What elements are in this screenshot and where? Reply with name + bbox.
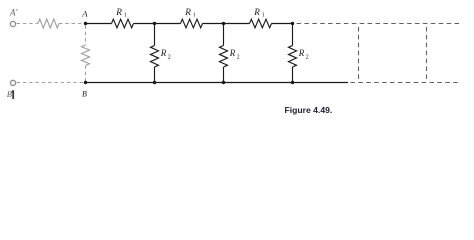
svg-text:R: R (298, 48, 305, 58)
svg-text:2: 2 (306, 55, 309, 61)
resistor R1 (2) (181, 19, 203, 28)
resistor R2 (1) zigzag (151, 46, 159, 68)
svg-text:2: 2 (168, 55, 171, 61)
svg-text:A: A (81, 8, 88, 18)
resistor R2 (3) top lead (292, 24, 294, 46)
resistor R1 (3) (250, 19, 272, 28)
wire dashed A' to source resistor (17, 23, 38, 25)
svg-text:1: 1 (124, 13, 127, 19)
svg-text:2: 2 (237, 55, 240, 61)
wire top rail seg 2a (155, 23, 181, 25)
wire dashed vertical continuation 2 (426, 27, 428, 80)
terminal A' (10, 21, 15, 26)
svg-text:R: R (184, 7, 191, 17)
resistor shunt faded: top dashed lead (85, 26, 87, 46)
node bottom junction 1 (153, 81, 156, 84)
svg-text:R: R (253, 7, 260, 17)
wire bottom rail solid (86, 82, 349, 84)
resistor R2 (2) bottom lead (223, 67, 225, 83)
resistor R2 (1) bottom lead (154, 67, 156, 83)
wire dashed source resistor to node A (59, 23, 86, 25)
node bottom junction 2 (222, 81, 225, 84)
resistor R2 (3) bottom lead (292, 67, 294, 83)
svg-text:B: B (82, 90, 87, 99)
resistor R2 (3) zigzag (289, 46, 297, 68)
resistor R2 (2) zigzag (220, 46, 228, 68)
svg-text:1: 1 (193, 13, 196, 19)
node B (84, 81, 87, 84)
wire top rail seg 3b (272, 23, 293, 25)
resistor R1 (1) (112, 19, 134, 28)
node bottom junction 3 (291, 81, 294, 84)
svg-text:R: R (115, 7, 122, 17)
resistor R2 (1) top lead (154, 24, 156, 46)
wire dashed B' to node B (17, 82, 84, 84)
resistor source (faded) (38, 19, 59, 28)
wire top rail seg 3a (224, 23, 250, 25)
wire dashed vertical continuation 1 (358, 27, 360, 80)
resistor R2 (2) top lead (223, 24, 225, 46)
node top junction 3 (291, 22, 294, 25)
wire top rail seg 1a (86, 23, 112, 25)
node top junction 2 (222, 22, 225, 25)
wire dashed bottom continuation (351, 82, 461, 84)
node A (84, 22, 87, 25)
svg-text:B: B (7, 89, 12, 99)
svg-text:R: R (160, 48, 167, 58)
wire dashed top continuation (297, 23, 461, 25)
svg-text:A′: A′ (9, 7, 18, 17)
terminal B' (10, 80, 15, 85)
svg-text:1: 1 (262, 13, 265, 19)
resistor shunt faded: zigzag (82, 45, 90, 66)
wire top rail seg 2b (203, 23, 224, 25)
svg-text:Figure 4.49.: Figure 4.49. (285, 105, 333, 115)
node top junction 1 (153, 22, 156, 25)
wire top rail seg 1b (134, 23, 155, 25)
label B' prime mark (12, 90, 14, 99)
svg-text:R: R (229, 48, 236, 58)
resistor shunt faded: bottom dashed lead (85, 66, 87, 83)
